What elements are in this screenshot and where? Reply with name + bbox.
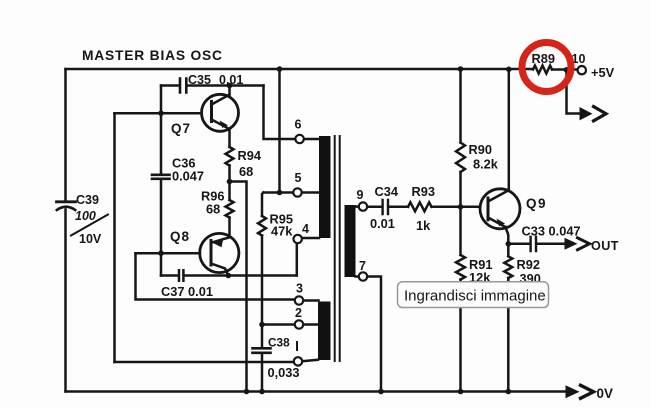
svg-text:0,033: 0,033	[268, 365, 300, 380]
svg-text:MASTER BIAS OSC: MASTER BIAS OSC	[82, 48, 223, 63]
svg-text:Q9: Q9	[526, 196, 547, 211]
node junction dot R91 at 0V rail	[458, 389, 464, 395]
node terminal pin 3	[295, 282, 319, 305]
wire C33 output horizontal	[508, 243, 565, 246]
node terminal pin 7	[356, 259, 368, 281]
node junction dot pin5 branch	[277, 190, 283, 196]
node arrow +5V feed	[580, 107, 607, 121]
transistor Q7	[171, 94, 239, 136]
svg-text:Q7: Q7	[171, 121, 191, 136]
svg-text:R89: R89	[532, 51, 555, 66]
svg-text:47k: 47k	[271, 224, 293, 239]
capacitor C39	[57, 193, 109, 246]
node terminal pin 9	[356, 188, 368, 211]
svg-text:68: 68	[239, 164, 253, 179]
wire Q7 base horizontal	[115, 112, 202, 115]
svg-text:OUT: OUT	[591, 239, 619, 253]
transformer primary winding lower bar	[318, 302, 331, 361]
wire Q8 base horizontal	[136, 252, 201, 255]
node junction dot R94/R96 midpoint	[227, 179, 233, 185]
svg-text:C39: C39	[76, 193, 99, 207]
svg-text:4: 4	[302, 222, 309, 236]
node terminal pin 4	[294, 222, 320, 243]
node junction dot pin7 line at 0V rail	[378, 389, 384, 395]
svg-text:C35: C35	[188, 73, 211, 87]
resistor R89	[532, 51, 555, 74]
node junction dot pin2 wire / R95 line	[259, 322, 265, 328]
node terminal pin 10	[572, 52, 587, 74]
node junction dot rail/pin5 branch	[277, 66, 283, 72]
svg-text:Ingrandisci immagine: Ingrandisci immagine	[404, 288, 546, 305]
svg-text:0.01: 0.01	[370, 216, 395, 231]
capacitor C33	[522, 224, 581, 252]
wire Q7 emitter / R94 R96 chain x229.5	[228, 129, 231, 234]
node arrow OUT	[565, 238, 619, 253]
wire Q9 collector to +5V rail	[508, 69, 511, 189]
wire Q8 base loop down to pin3	[136, 253, 295, 299]
svg-text:8.2k: 8.2k	[473, 157, 499, 172]
svg-text:68: 68	[206, 202, 220, 217]
svg-text:2: 2	[295, 306, 302, 320]
wire R95 vertical x262	[262, 193, 264, 392]
wire pin7 to 0V rail	[367, 277, 381, 392]
wire ground branch from R94/R96 junction	[230, 182, 247, 392]
capacitor C35	[180, 73, 243, 93]
resistor R91	[456, 255, 492, 285]
wire +5V rail to pin5 vertical x279.5	[278, 69, 281, 193]
wire C37 / Q8 emitter horizontal y275.5	[161, 274, 297, 277]
resistor R94	[226, 147, 262, 179]
svg-text:R94: R94	[238, 148, 262, 163]
node junction dot R90 at +5V rail	[458, 66, 464, 72]
svg-text:C38: C38	[268, 336, 290, 350]
node junction dot Q7 collector on C35 wire	[227, 83, 233, 89]
resistor R95	[258, 212, 293, 239]
svg-text:3: 3	[296, 282, 303, 296]
capacitor C38	[253, 336, 300, 381]
svg-text:100: 100	[75, 209, 96, 223]
node junction dot Q9 base	[458, 204, 464, 210]
svg-text:C33 0.047: C33 0.047	[522, 224, 581, 239]
svg-text:5: 5	[295, 171, 302, 185]
svg-text:+5V: +5V	[591, 65, 615, 80]
transistor Q8	[170, 229, 239, 276]
wire Q7 collector stub	[228, 86, 231, 96]
svg-text:C34: C34	[375, 184, 399, 199]
wire 0V bottom rail	[66, 390, 567, 393]
svg-text:0.047: 0.047	[172, 169, 204, 184]
svg-text:10V: 10V	[79, 232, 102, 246]
wire R89 branch down to arrow	[567, 70, 582, 114]
capacitor C34	[370, 184, 399, 231]
node terminal pin 5	[293, 171, 319, 197]
node junction dot Q8 emitter	[226, 273, 232, 279]
node junction dot Q8 base	[158, 250, 164, 256]
red annotation circle around R89	[522, 43, 571, 92]
wire left loop vertical x114	[113, 113, 116, 362]
wire C36 vertical x161	[160, 86, 163, 276]
wire C35 horizontal y85.5	[161, 84, 264, 87]
svg-text:6: 6	[295, 118, 302, 132]
resistor R96	[201, 189, 234, 218]
svg-text:7: 7	[359, 259, 366, 273]
svg-text:R93: R93	[412, 184, 435, 199]
svg-text:Q8: Q8	[170, 229, 190, 244]
wire R90/R91 vertical x460.5	[459, 69, 462, 392]
wire bottom feedback horizontal y362	[115, 361, 294, 364]
resistor R90	[456, 142, 499, 172]
node terminal pin 6	[295, 118, 320, 144]
transformer core lines	[335, 136, 340, 361]
wire pin2 horizontal	[262, 323, 295, 326]
node junction dot ground line at 0V rail	[244, 389, 250, 395]
node junction dot R92 at 0V rail	[506, 389, 512, 395]
node junction dot Q9 emitter	[506, 241, 512, 247]
wire pin9 to Q9 base	[367, 206, 480, 209]
transformer primary winding upper bar	[319, 136, 331, 238]
node junction dot Q9 collector at rail	[506, 67, 512, 73]
tooltip Ingrandisci immagine	[398, 282, 549, 308]
wire left vertical (C39 branch)	[64, 69, 67, 392]
node arrow 0V	[566, 385, 613, 401]
resistor R93	[408, 184, 435, 233]
node terminal pin 1 bottom of winding	[294, 357, 318, 365]
node junction dot Q7 base / C36 line	[158, 110, 164, 116]
capacitor C37	[161, 270, 213, 299]
svg-text:9: 9	[357, 188, 364, 202]
capacitor C36	[152, 156, 204, 184]
wire +5V top rail	[66, 68, 578, 71]
wire pin4 drop	[296, 244, 299, 276]
resistor R92	[504, 256, 541, 286]
wire C35 right corner down to pin6	[264, 86, 296, 140]
node junction dot right of R89	[564, 67, 570, 73]
wire pin5 horizontal	[264, 191, 294, 194]
svg-text:R92: R92	[517, 257, 540, 272]
svg-text:R90: R90	[469, 142, 492, 157]
svg-text:0V: 0V	[597, 386, 613, 401]
transistor Q9	[480, 189, 547, 229]
node junction dot C38 at 0V rail	[259, 389, 265, 395]
wire Q9 emitter / R92 vertical	[506, 227, 509, 392]
svg-text:C37 0.01: C37 0.01	[161, 284, 213, 299]
svg-text:1k: 1k	[416, 218, 431, 233]
node terminal pin 2	[295, 306, 319, 329]
transformer secondary winding bar	[345, 205, 356, 277]
